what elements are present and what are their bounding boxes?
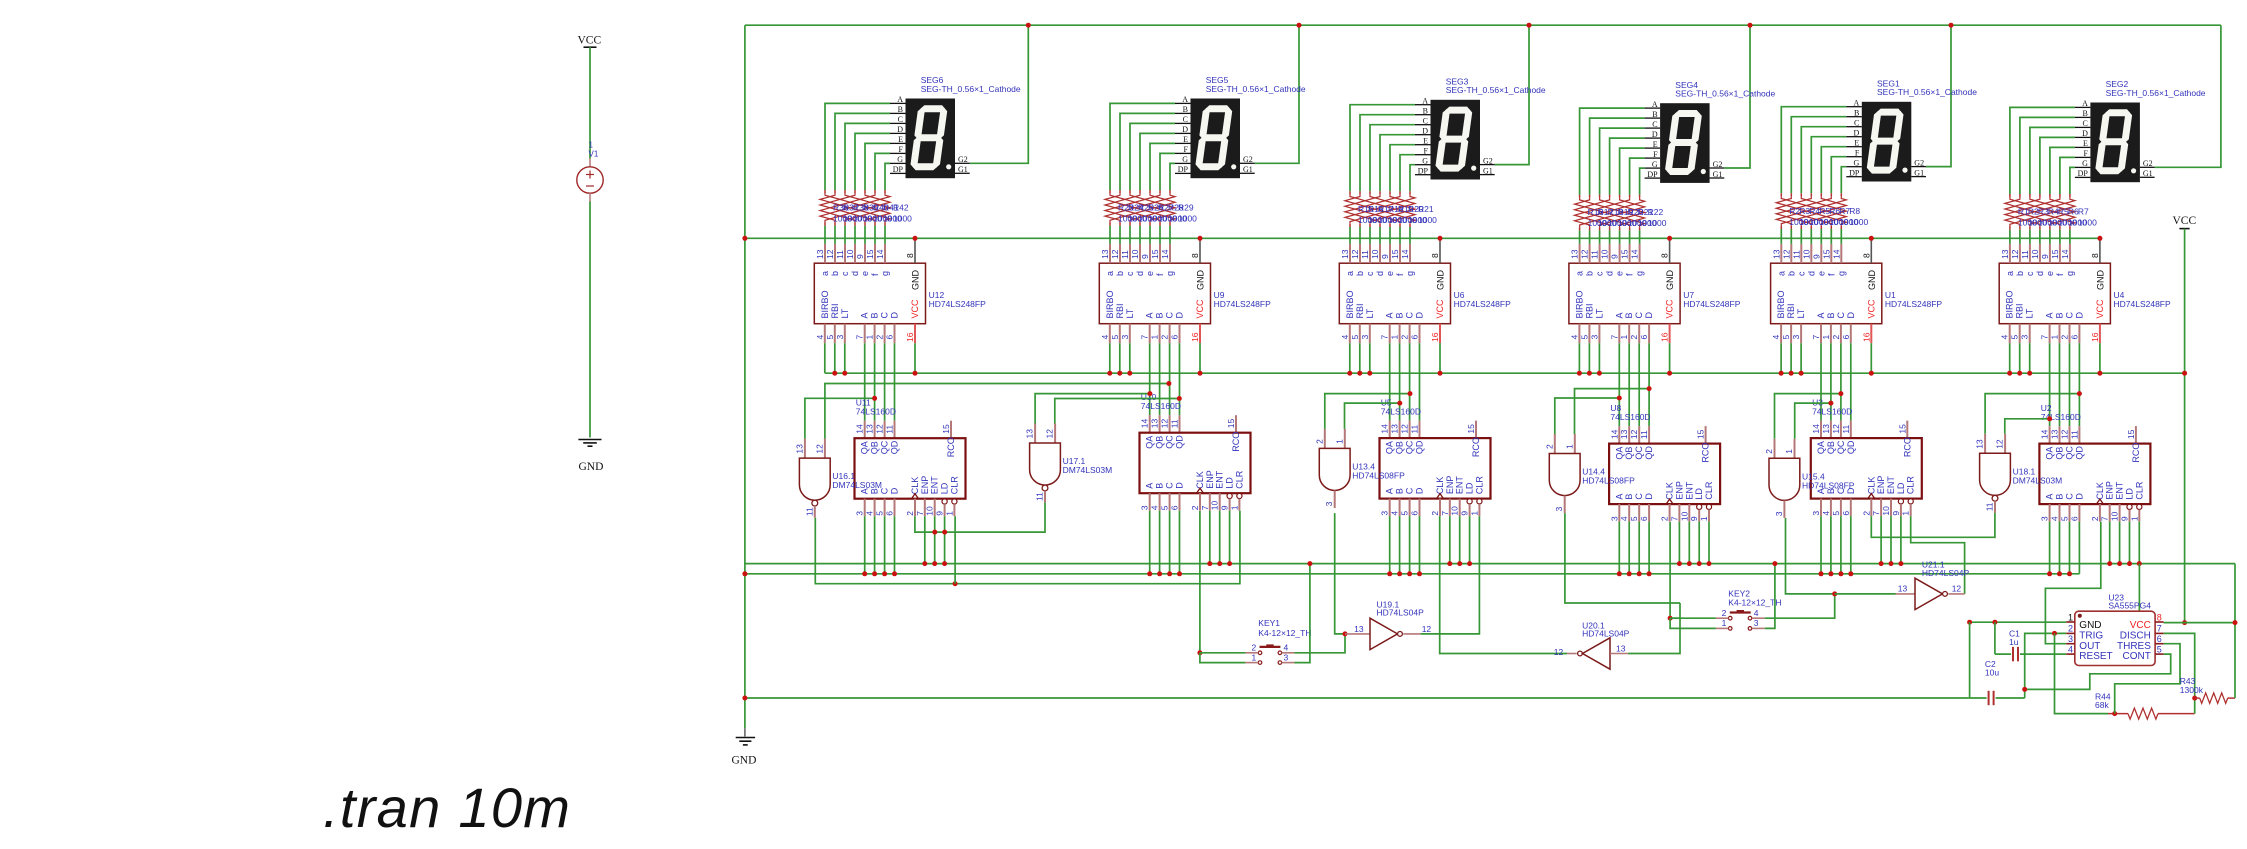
svg-text:4: 4 <box>2050 516 2060 521</box>
svg-text:d: d <box>1135 271 1145 276</box>
svg-text:6: 6 <box>1410 335 1420 340</box>
wires counter U11 data inputs to load rail <box>864 516 866 574</box>
svg-text:12: 12 <box>1400 424 1410 434</box>
svg-text:12: 12 <box>2060 429 2070 439</box>
svg-text:c: c <box>840 271 850 276</box>
svg-text:G: G <box>1422 157 1428 166</box>
svg-text:1: 1 <box>1901 511 1911 516</box>
svg-text:QB: QB <box>1624 447 1634 460</box>
svg-text:11: 11 <box>1791 250 1801 259</box>
svg-text:8: 8 <box>1861 253 1871 258</box>
wire KEY1 pin3 to enable rail <box>1295 564 1310 663</box>
svg-text:2: 2 <box>1660 516 1670 521</box>
svg-text:13: 13 <box>1975 439 1985 449</box>
svg-text:E: E <box>1854 139 1859 148</box>
svg-text:QA: QA <box>1816 441 1826 454</box>
svg-text:7: 7 <box>2040 334 2050 339</box>
svg-text:A: A <box>1614 494 1624 500</box>
svg-text:C: C <box>1854 119 1859 128</box>
svg-text:b: b <box>1585 271 1595 276</box>
wires U9 BCD inputs to counter U10 outputs <box>1149 343 1151 415</box>
svg-text:HD74LS04P: HD74LS04P <box>1582 629 1630 639</box>
wires counter U2 enable pins to rail <box>2109 522 2111 564</box>
wires counter U11 enable pins to rail <box>924 516 926 563</box>
svg-text:D: D <box>2074 493 2084 500</box>
svg-text:a: a <box>1575 271 1585 276</box>
svg-text:6: 6 <box>2069 516 2079 521</box>
svg-text:5: 5 <box>1350 335 1360 340</box>
svg-text:13: 13 <box>865 424 875 434</box>
svg-text:13: 13 <box>815 249 825 259</box>
inverter U20.1 HD74LS04P <box>1578 651 1583 656</box>
svg-text:d: d <box>1806 271 1816 276</box>
BCD decoder U12 HD74LS248FP <box>814 263 925 324</box>
wire 555 THRES to R44 <box>2115 644 2180 714</box>
svg-text:HD74LS248FP: HD74LS248FP <box>1683 299 1741 309</box>
svg-text:13: 13 <box>1150 418 1160 428</box>
svg-text:14: 14 <box>1140 418 1150 428</box>
counter U3 74LS160D <box>1820 421 1822 439</box>
svg-text:SEG-TH_0.56×1_Cathode: SEG-TH_0.56×1_Cathode <box>1877 87 1977 97</box>
svg-text:ENT: ENT <box>1886 476 1896 495</box>
wire U10 CLK to KEY1 <box>1199 511 1201 653</box>
svg-text:4: 4 <box>865 511 875 516</box>
svg-text:RCO: RCO <box>1701 443 1711 463</box>
svg-text:14: 14 <box>1400 249 1410 259</box>
svg-text:15: 15 <box>1466 424 1476 434</box>
wire 555 DISCH to R43/R44 node <box>2164 633 2195 713</box>
svg-text:5: 5 <box>2010 335 2020 340</box>
pushbutton KEY1 K4-12x12_TH <box>1260 646 1281 648</box>
svg-text:B: B <box>1423 107 1428 116</box>
svg-text:G2: G2 <box>958 155 968 164</box>
svg-text:2: 2 <box>1861 511 1871 516</box>
svg-text:6: 6 <box>1170 335 1180 340</box>
svg-text:15: 15 <box>1150 249 1160 259</box>
svg-text:B: B <box>2083 109 2088 118</box>
display SEG5 SEG-TH_0.56x1_Cathode <box>1191 99 1241 179</box>
wire U21.1 output to U3 CLR <box>1911 516 1965 594</box>
svg-text:C: C <box>1405 487 1415 494</box>
wire U18.1 output to U3 CLK <box>1871 513 1995 537</box>
wire U20.1 input to KEY2 node <box>1628 603 1680 654</box>
svg-text:B: B <box>1624 312 1634 318</box>
wire TRIG to R44 node <box>2055 633 2109 713</box>
wires counter U5 data inputs to load rail <box>1389 516 1391 574</box>
display SEG2 G2 wire to top rail <box>2155 25 2221 167</box>
svg-text:HD74LS248FP: HD74LS248FP <box>2114 299 2172 309</box>
svg-text:12: 12 <box>875 424 885 434</box>
wire VCC rail (row 373) <box>825 372 2185 374</box>
svg-text:5: 5 <box>1831 511 1841 516</box>
svg-text:QA: QA <box>1614 447 1624 460</box>
svg-text:GND: GND <box>1665 270 1675 291</box>
wire U16.1 output to hours CLR line <box>815 511 1240 584</box>
svg-text:10: 10 <box>1370 249 1380 259</box>
wire U18.1 input 13 tap from U2 QD <box>1985 394 2079 434</box>
wire bottom GND rail <box>745 697 1969 699</box>
svg-text:LD: LD <box>1694 488 1704 500</box>
svg-text:1: 1 <box>1390 335 1400 340</box>
svg-text:2: 2 <box>905 511 915 516</box>
ground symbol left <box>578 439 601 441</box>
svg-text:F: F <box>1184 145 1189 154</box>
svg-text:12: 12 <box>1422 624 1432 634</box>
wire load-data rail (row 574) <box>745 573 2080 575</box>
svg-text:4: 4 <box>2000 335 2010 340</box>
voltage source V1 <box>589 159 591 167</box>
svg-text:12: 12 <box>814 444 824 454</box>
wires U6 control pins to VCC rail <box>1349 343 1351 373</box>
svg-text:D: D <box>897 125 903 134</box>
svg-text:1: 1 <box>1229 505 1239 510</box>
svg-text:74LS160D: 74LS160D <box>1812 407 1852 417</box>
svg-text:OUT: OUT <box>2079 641 2100 652</box>
svg-text:HD74LS08FP: HD74LS08FP <box>1352 470 1405 480</box>
display SEG3 SEG-TH_0.56x1_Cathode <box>1431 100 1481 180</box>
svg-text:11: 11 <box>885 425 895 434</box>
svg-text:D: D <box>890 312 900 319</box>
svg-text:13: 13 <box>1898 583 1908 593</box>
display SEG4 G2 wire to top rail <box>1724 25 1750 168</box>
svg-text:a: a <box>1776 271 1786 276</box>
wire U16.1 input 12 line to U10 QC <box>825 384 1169 439</box>
wire U14.4 input 2 tap from U8 QA <box>1555 398 1620 434</box>
wire U13.4 output to U19.1 input <box>1335 513 1345 634</box>
svg-text:RBI: RBI <box>830 303 840 318</box>
svg-text:14: 14 <box>855 424 865 434</box>
svg-text:7: 7 <box>1380 335 1390 340</box>
svg-text:9: 9 <box>2120 516 2130 521</box>
svg-text:GND: GND <box>579 461 604 473</box>
svg-text:VCC: VCC <box>2130 620 2151 631</box>
svg-text:11: 11 <box>804 507 814 516</box>
wires counter U8 enable pins to rail <box>1678 522 1680 564</box>
svg-text:3: 3 <box>2020 335 2030 340</box>
display SEG1 SEG-TH_0.56x1_Cathode <box>1862 102 1912 182</box>
svg-text:SEG-TH_0.56×1_Cathode: SEG-TH_0.56×1_Cathode <box>1206 84 1306 94</box>
svg-text:c: c <box>1125 271 1135 276</box>
counter U2 74LS160D <box>2049 426 2051 444</box>
svg-text:8: 8 <box>905 253 915 258</box>
svg-text:e: e <box>2045 271 2055 276</box>
capacitor C2 10u <box>1969 622 1971 698</box>
svg-text:16: 16 <box>1430 332 1440 342</box>
svg-text:D: D <box>1644 493 1654 500</box>
svg-text:R42: R42 <box>893 203 909 213</box>
svg-text:QC: QC <box>1836 440 1846 454</box>
svg-text:B: B <box>870 312 880 318</box>
svg-text:5: 5 <box>1160 505 1170 510</box>
svg-text:5: 5 <box>825 335 835 340</box>
svg-text:E: E <box>1183 135 1188 144</box>
resistor bank R1-R7 (7x 1000) <box>2009 194 2011 197</box>
svg-text:VCC: VCC <box>1665 299 1675 319</box>
svg-text:QD: QD <box>2074 446 2084 460</box>
svg-text:1: 1 <box>1784 449 1794 454</box>
counter U10 74LS160D <box>1149 415 1151 433</box>
svg-text:ENT: ENT <box>1215 470 1225 489</box>
wires U7 BCD inputs to counter U8 outputs <box>1618 343 1620 426</box>
svg-text:BIRBO: BIRBO <box>1345 290 1355 318</box>
svg-text:a: a <box>1345 271 1355 276</box>
svg-text:QA: QA <box>2045 447 2055 460</box>
svg-text:DP: DP <box>1418 167 1429 176</box>
svg-text:b: b <box>1786 271 1796 276</box>
svg-text:9: 9 <box>1689 516 1699 521</box>
svg-text:DM74LS03M: DM74LS03M <box>832 480 882 490</box>
svg-text:D: D <box>1652 130 1658 139</box>
svg-text:g: g <box>2065 271 2075 276</box>
svg-text:CONT: CONT <box>2123 651 2151 662</box>
counter U8 74LS160D <box>1618 426 1620 444</box>
svg-text:G1: G1 <box>2143 169 2153 178</box>
svg-text:G2: G2 <box>2143 159 2153 168</box>
svg-text:A: A <box>897 95 903 104</box>
svg-text:6: 6 <box>1639 335 1649 340</box>
svg-text:13: 13 <box>1616 644 1626 654</box>
svg-text:LT: LT <box>1365 308 1375 318</box>
wires counter U3 enable pins to rail <box>1880 516 1882 564</box>
svg-text:B: B <box>1826 312 1836 318</box>
svg-text:4: 4 <box>1569 335 1579 340</box>
svg-text:VCC: VCC <box>2095 299 2105 319</box>
wire U8 CLK to KEY2 <box>1669 522 1671 618</box>
svg-text:15: 15 <box>1696 429 1706 439</box>
svg-text:QA: QA <box>1145 436 1155 449</box>
svg-text:CLR: CLR <box>1234 470 1244 489</box>
svg-text:RCO: RCO <box>2131 443 2141 463</box>
svg-text:LT: LT <box>1125 308 1135 318</box>
svg-text:CLR: CLR <box>1474 476 1484 495</box>
svg-text:14: 14 <box>2060 249 2070 259</box>
svg-text:CLR: CLR <box>1704 481 1714 500</box>
svg-text:RESET: RESET <box>2079 651 2112 662</box>
wires counter U8 data inputs to load rail <box>1618 522 1620 574</box>
svg-text:ENP: ENP <box>1674 481 1684 500</box>
svg-text:BIRBO: BIRBO <box>1574 290 1584 318</box>
svg-text:C: C <box>880 312 890 319</box>
resistor bank wires to decoder U4 <box>2009 230 2011 244</box>
resistor bank wires to decoder U9 <box>1109 226 1111 244</box>
gate U15.4 HD74LS08FP <box>1774 439 1776 459</box>
svg-text:D: D <box>1182 125 1188 134</box>
svg-text:5: 5 <box>2060 516 2070 521</box>
svg-text:3: 3 <box>1774 511 1784 516</box>
svg-text:G1: G1 <box>1483 166 1493 175</box>
svg-text:BIRBO: BIRBO <box>1105 290 1115 318</box>
svg-text:12: 12 <box>1110 249 1120 259</box>
svg-text:K4-12×12_TH: K4-12×12_TH <box>1728 598 1781 608</box>
wire U2 CLR stub to 555 region <box>2138 564 2140 612</box>
svg-text:B: B <box>1624 494 1634 500</box>
svg-text:LD: LD <box>2125 488 2135 500</box>
svg-text:7: 7 <box>1871 511 1881 516</box>
svg-text:1: 1 <box>2050 335 2060 340</box>
svg-text:VCC: VCC <box>578 35 602 47</box>
resistor bank R15-R21 (7x 1000) <box>1349 191 1351 194</box>
display SEG1 G2 wire to top rail <box>1926 25 1951 166</box>
svg-text:10: 10 <box>925 506 935 516</box>
svg-text:3: 3 <box>1380 511 1390 516</box>
svg-text:g: g <box>880 271 890 276</box>
svg-text:7: 7 <box>855 335 865 340</box>
svg-text:KEY1: KEY1 <box>1258 618 1280 628</box>
wire U17.1 input 12 tap from U10 QD <box>1055 399 1180 424</box>
svg-text:7: 7 <box>1609 335 1619 340</box>
svg-text:4: 4 <box>1754 608 1759 618</box>
svg-text:DP: DP <box>2078 169 2089 178</box>
svg-text:10: 10 <box>1881 506 1891 516</box>
svg-text:11: 11 <box>1170 419 1180 428</box>
svg-text:b: b <box>1115 271 1125 276</box>
svg-text:A: A <box>1422 97 1428 106</box>
svg-text:RCO: RCO <box>946 437 956 457</box>
svg-text:F: F <box>1855 149 1860 158</box>
svg-text:8: 8 <box>1660 253 1670 258</box>
svg-text:g: g <box>1635 271 1645 276</box>
svg-text:11: 11 <box>1841 425 1851 434</box>
svg-text:QD: QD <box>1175 435 1185 449</box>
svg-text:4: 4 <box>1619 516 1629 521</box>
svg-text:1300k: 1300k <box>2180 685 2204 695</box>
svg-text:QB: QB <box>1155 436 1165 449</box>
svg-text:VCC: VCC <box>1866 299 1876 319</box>
gate U18.1 DM74LS03M <box>1984 434 1986 454</box>
wire KEY2 pin3 to enable rail <box>1765 564 1775 629</box>
svg-text:12: 12 <box>1952 583 1962 593</box>
svg-text:3: 3 <box>2040 516 2050 521</box>
svg-text:G: G <box>1652 160 1658 169</box>
svg-text:3: 3 <box>1811 511 1821 516</box>
svg-text:14: 14 <box>1609 429 1619 439</box>
svg-text:SEG-TH_0.56×1_Cathode: SEG-TH_0.56×1_Cathode <box>921 84 1021 94</box>
svg-text:b: b <box>1355 271 1365 276</box>
svg-text:RCO: RCO <box>1231 432 1241 452</box>
pushbutton KEY2 K4-12x12_TH <box>1730 611 1751 613</box>
svg-text:10: 10 <box>1679 511 1689 521</box>
wires U12 BCD inputs to counter U11 outputs <box>864 343 866 421</box>
svg-text:10: 10 <box>1450 506 1460 516</box>
svg-text:1: 1 <box>2068 612 2073 622</box>
wires counter U10 data inputs to load rail <box>1149 511 1151 574</box>
svg-text:G2: G2 <box>1483 156 1493 165</box>
wire 555 VCC row to R43 <box>2164 622 2235 624</box>
svg-text:HD74LS248FP: HD74LS248FP <box>1885 299 1943 309</box>
svg-text:4: 4 <box>1150 505 1160 510</box>
svg-text:2: 2 <box>1544 444 1554 449</box>
svg-text:A: A <box>2045 312 2055 318</box>
svg-text:7: 7 <box>1140 335 1150 340</box>
svg-text:1000: 1000 <box>1418 215 1437 225</box>
svg-text:9: 9 <box>1610 254 1620 259</box>
svg-text:e: e <box>1385 271 1395 276</box>
svg-text:2: 2 <box>1160 335 1170 340</box>
svg-text:15: 15 <box>941 424 951 434</box>
svg-text:14: 14 <box>875 249 885 259</box>
wire KEY2 pin4 to U21.1 input node <box>1765 594 1835 618</box>
svg-text:QD: QD <box>1644 446 1654 460</box>
svg-text:HD74LS08FP: HD74LS08FP <box>1582 476 1635 486</box>
svg-text:74LS160D: 74LS160D <box>1610 412 1650 422</box>
counter U5 74LS160D <box>1389 421 1391 439</box>
BCD decoder U1 HD74LS248FP <box>1771 263 1882 324</box>
svg-text:12: 12 <box>1580 249 1590 259</box>
svg-text:LT: LT <box>840 308 850 318</box>
wire U11 CLR to hours CLR line <box>954 516 956 584</box>
svg-text:2: 2 <box>1190 505 1200 510</box>
timer U23 SA555PG4 <box>2075 611 2155 665</box>
svg-text:5: 5 <box>1629 516 1639 521</box>
svg-text:C: C <box>1836 312 1846 319</box>
svg-text:3: 3 <box>1140 505 1150 510</box>
svg-text:LD: LD <box>940 482 950 494</box>
svg-text:4: 4 <box>1390 511 1400 516</box>
svg-text:QD: QD <box>1846 440 1856 454</box>
svg-text:10: 10 <box>1130 249 1140 259</box>
svg-text:12: 12 <box>1995 439 2005 449</box>
svg-text:2: 2 <box>1430 511 1440 516</box>
display SEG6 wires segment fan <box>825 103 890 190</box>
display SEG6 G2 wire to top rail <box>970 25 1029 163</box>
svg-text:D: D <box>1422 127 1428 136</box>
svg-text:CLK: CLK <box>2095 482 2105 500</box>
svg-text:D: D <box>2074 312 2084 319</box>
display SEG4 wires segment fan <box>1580 108 1645 195</box>
svg-text:BIRBO: BIRBO <box>2005 290 2015 318</box>
svg-text:15: 15 <box>1226 418 1236 428</box>
svg-text:2: 2 <box>2090 516 2100 521</box>
wire U13.4 input 2 tap from U5 QC <box>1325 394 1410 429</box>
svg-text:GND: GND <box>2095 270 2105 291</box>
svg-text:QD: QD <box>890 440 900 454</box>
svg-text:GND: GND <box>732 755 757 767</box>
svg-text:15: 15 <box>2050 249 2060 259</box>
gate U13.4 HD74LS08FP <box>1324 429 1326 449</box>
wire U15.4 input 1 tap from U3 QB <box>1795 403 1831 439</box>
svg-text:E: E <box>1423 137 1428 146</box>
svg-text:E: E <box>1653 140 1658 149</box>
svg-text:3: 3 <box>835 335 845 340</box>
svg-text:3: 3 <box>1360 335 1370 340</box>
svg-text:1: 1 <box>1564 444 1574 449</box>
svg-text:7: 7 <box>2100 516 2110 521</box>
svg-text:6: 6 <box>2157 634 2162 644</box>
svg-text:9: 9 <box>1140 254 1150 259</box>
wire left GND vertical <box>744 25 746 728</box>
svg-text:QC: QC <box>1165 435 1175 449</box>
svg-text:CLK: CLK <box>1195 471 1205 489</box>
wire 555 GND row <box>1970 621 2067 623</box>
svg-text:14: 14 <box>2040 429 2050 439</box>
svg-text:VCC: VCC <box>910 299 920 319</box>
svg-text:SEG-TH_0.56×1_Cathode: SEG-TH_0.56×1_Cathode <box>1675 89 1775 99</box>
wire V1 to GND <box>589 193 591 201</box>
svg-text:13: 13 <box>1340 249 1350 259</box>
svg-text:a: a <box>820 271 830 276</box>
svg-text:C: C <box>898 115 903 124</box>
svg-text:4: 4 <box>1284 642 1289 652</box>
svg-text:A: A <box>1145 312 1155 318</box>
resistor bank wires to decoder U12 <box>824 226 826 244</box>
svg-text:C: C <box>1165 312 1175 319</box>
svg-text:8: 8 <box>1190 253 1200 258</box>
svg-text:F: F <box>899 145 904 154</box>
svg-text:RBI: RBI <box>2015 303 2025 318</box>
svg-text:11: 11 <box>835 250 845 259</box>
svg-text:13: 13 <box>1390 424 1400 434</box>
svg-text:5: 5 <box>1579 335 1589 340</box>
